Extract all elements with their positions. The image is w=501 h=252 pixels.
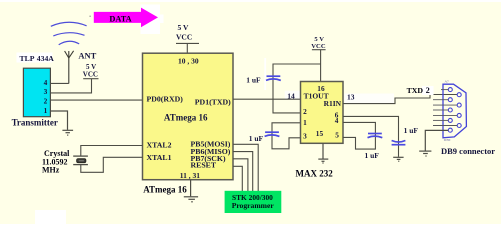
ground (ATmega) [184, 197, 198, 202]
ground (C4) [393, 157, 403, 161]
wire VCC to ATmega pin 10,30 [186, 43, 188, 52]
ground (DB9) [419, 151, 431, 156]
svg-text:DB9: DB9 [444, 138, 451, 142]
svg-text:1: 1 [44, 106, 48, 115]
svg-text:1: 1 [303, 118, 307, 127]
svg-text:PD0(RXD): PD0(RXD) [147, 95, 184, 104]
capacitor C3 1uF (pin2 to VCC) [266, 76, 281, 80]
VCC symbol transmitter [83, 78, 98, 80]
wire MAX232 pin4 through capacitor C2 to pin5 [343, 122, 375, 149]
svg-text:MAX 232: MAX 232 [296, 168, 334, 178]
DB9 connector outline [443, 84, 466, 138]
wire PD1(TXD) to MAX232 pin14 [233, 98, 301, 100]
wire XTAL2 to crystal [81, 146, 143, 157]
svg-text:13: 13 [347, 93, 355, 102]
svg-text:ATmega 16: ATmega 16 [164, 113, 208, 123]
wire DB9 pin5 to ground [425, 130, 448, 150]
DB9 pins right column [457, 93, 461, 128]
antenna symbol [65, 51, 74, 84]
svg-text:VCC: VCC [83, 70, 98, 78]
svg-text:PD1(TXD): PD1(TXD) [195, 97, 231, 106]
DB9 pins left column [448, 88, 452, 133]
wire VCC branch through capacitor C3 to MAX232 pin2 [273, 64, 321, 113]
wire VCC to MAX232 pin16 [320, 50, 322, 82]
crystal X1 [73, 156, 88, 165]
svg-text:4: 4 [44, 78, 48, 87]
svg-text:RESET: RESET [191, 161, 217, 170]
TLP 434A label [17, 53, 53, 63]
svg-text:VCC: VCC [176, 33, 192, 42]
svg-text:14: 14 [287, 91, 295, 100]
svg-text:3: 3 [303, 131, 307, 140]
ground (transmitter) [62, 130, 73, 135]
svg-text:10 , 30: 10 , 30 [178, 57, 199, 66]
white label patch behind pin 14 [285, 91, 301, 100]
pin 2 white label (DB9) [422, 86, 434, 95]
capacitor C2 1uF (pin4 to pin5) [368, 134, 383, 138]
antenna arc 1 [51, 22, 87, 26]
svg-text:ATmega 16: ATmega 16 [143, 184, 187, 194]
DATA arrow [94, 8, 158, 28]
svg-text:15: 15 [316, 129, 324, 138]
svg-text:1 uF: 1 uF [404, 126, 419, 135]
svg-text:3: 3 [44, 87, 48, 96]
svg-text:4: 4 [335, 116, 339, 125]
svg-text:DB9 connector: DB9 connector [441, 146, 495, 156]
svg-text:VCC: VCC [311, 43, 326, 50]
wire MAX232 pin13 to DB9 pin2 [343, 95, 457, 104]
white streak artifact near C3 [264, 58, 266, 90]
svg-text:MHz: MHz [42, 166, 60, 175]
antenna arc 3 [59, 41, 79, 45]
wire PB6 to programmer [233, 152, 253, 192]
svg-text:Programmer: Programmer [232, 201, 275, 210]
svg-text:A7: A7 [445, 80, 450, 84]
wire pin2 to ATmega PD0 [50, 99, 142, 101]
capacitor C1 1uF (pin1 to pin3) [265, 132, 280, 136]
svg-text:1 uF: 1 uF [249, 134, 264, 143]
STK 200/300 programmer box [225, 191, 282, 213]
svg-text:R1IN: R1IN [324, 99, 342, 108]
antenna arc 2 [53, 33, 84, 36]
wire MAX232 pin1 through capacitor C1 to pin3 [272, 123, 301, 149]
svg-text:XTAL1: XTAL1 [147, 153, 172, 162]
svg-text:2: 2 [44, 97, 48, 106]
svg-text:5 V: 5 V [178, 23, 189, 32]
wire PB7 to programmer [233, 159, 248, 192]
svg-text:XTAL2: XTAL2 [147, 141, 172, 150]
wire RESET to programmer [233, 166, 242, 191]
svg-text:TLP 434A: TLP 434A [20, 54, 55, 63]
wire MAX232 pin6 through capacitor C4 to ground [343, 116, 399, 156]
white label patch behind pin 13 [345, 94, 395, 104]
svg-text:11 , 31: 11 , 31 [180, 171, 200, 180]
transmitter TLP434A box [23, 68, 50, 117]
wire pin3 to VCC [50, 79, 91, 93]
wire pin1 to ground [50, 111, 67, 130]
wire pin4 to antenna [50, 82, 68, 84]
svg-text:DATA: DATA [109, 14, 131, 23]
wire MAX232 pin15 to ground [322, 143, 324, 158]
wire PB5 to programmer [233, 144, 258, 191]
svg-text:ANT: ANT [78, 51, 96, 61]
svg-text:1 uF: 1 uF [365, 151, 380, 160]
DB9 pin leads [433, 90, 457, 126]
svg-text:1 uF: 1 uF [246, 75, 261, 84]
ATmega16 box U1 [143, 53, 234, 180]
MAX232 box U2 [301, 82, 344, 144]
svg-text:Transmitter: Transmitter [12, 117, 58, 127]
svg-text:2: 2 [426, 86, 430, 95]
white notch bottom-left [35, 210, 66, 225]
svg-text:5: 5 [335, 131, 339, 140]
wire ATmega bottom to ground [190, 180, 192, 197]
ground (MAX232) [318, 159, 328, 163]
stray mark left of arrow [89, 15, 91, 17]
capacitor C4 1uF (pin6 to ground) [392, 141, 406, 145]
svg-text:2: 2 [303, 107, 307, 116]
wire XTAL1 to crystal [81, 157, 143, 172]
white patch behind DATA arrowhead [141, 5, 161, 35]
svg-text:TXD: TXD [407, 86, 424, 95]
